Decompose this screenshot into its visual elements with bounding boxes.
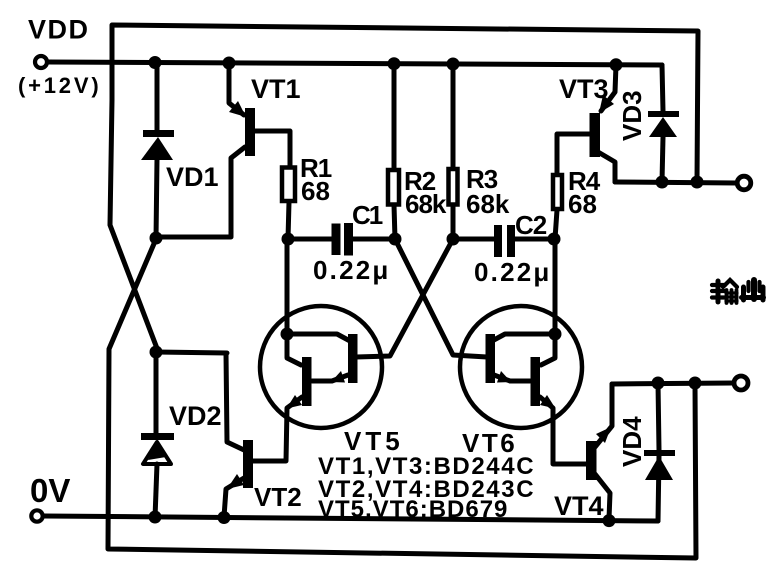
node A dot [282,233,295,246]
wire VD2 node horizontal [156,352,227,353]
capacitor C2 right plate [507,225,515,257]
svg-text:0.22μ: 0.22μ [474,257,552,287]
svg-text:C2: C2 [515,210,547,240]
transistor VT5 circle [260,306,382,428]
wire VD1 bottom lead [156,159,157,239]
svg-text:VT5: VT5 [344,426,404,456]
node dot VD2 top [150,346,163,359]
wire R3 bottom to node C [451,205,456,239]
node dot VT4 collector 0V [603,514,616,527]
capacitor C1 left plate [332,224,341,256]
svg-text:VT5,VT6:BD679: VT5,VT6:BD679 [318,496,508,523]
transistor VT6 emitter A arrow [497,371,511,383]
node dot output top VD3 [656,176,669,189]
node dot rail VT3 [610,58,623,71]
wire bottom frame (VD1 node to output bottom) [108,239,696,558]
diode VD1 triangle [141,137,173,160]
diode VD2 triangle outline with inner arrow [143,442,171,464]
terminal VDD [35,56,47,68]
wire C1 to node B [353,237,395,242]
diode VD1 cathode bar [143,130,174,137]
node dot rail VT1 [223,57,236,70]
node dot VD2 bottom 0V [149,511,162,524]
transistor VT1 bar [245,108,255,156]
wire R2 top lead [392,63,397,169]
node B dot [389,233,402,246]
svg-text:VT2: VT2 [254,482,302,512]
node dot output bottom frame [689,377,702,390]
svg-text:68k: 68k [466,189,510,219]
node dot VT2 emitter 0V [218,511,231,524]
transistor VT6 inner bar 2 [531,357,541,406]
wire R1 bottom to node A [288,202,289,239]
wire VD2 bottom lead [155,464,157,518]
resistor R2 [388,170,399,205]
diode VD3 triangle [649,117,677,137]
transistor VT6 inner bar 1 [486,334,496,383]
wire VDD rail [48,62,662,65]
svg-text:VT3: VT3 [559,74,609,104]
transistor VT3 emitter arrow [599,95,614,113]
wire VD2 top lead [154,352,159,434]
transistor VT4 emitter arrow [596,427,611,443]
svg-text:VD1: VD1 [166,162,219,192]
transistor VT2 emitter arrow [227,474,244,489]
wire node D to VT6 collector [553,239,558,334]
resistor R4 [553,175,562,209]
wire VD3 bottom lead [662,137,663,182]
node dot VD1 bottom [150,232,163,245]
wire VD1 top lead [155,62,160,131]
transistor VT5 inner bar 2 [302,357,312,406]
svg-text:VDD: VDD [28,15,90,45]
svg-text:VT1: VT1 [251,74,301,104]
svg-text:0.22μ: 0.22μ [313,255,391,285]
wire C2 to node D [514,237,554,242]
svg-text:68: 68 [568,189,597,219]
wire node A to C1 [288,237,333,242]
wire VT5 emitter B out [253,397,302,461]
wire output bottom line [612,383,733,384]
wire VT3 emitter lead [601,65,616,111]
diode VD4 triangle [645,456,673,480]
wire VT4 emitter up to output bottom [595,384,612,447]
wire VT3 base to R4 [557,134,590,174]
wire VT6 collector internal lower [541,334,555,365]
transistor VT5 inner bar 1 [348,334,358,383]
transistor VT5 emitter B arrow [287,395,303,409]
svg-text:68: 68 [301,176,330,206]
resistor R1 [282,168,295,202]
terminal 0V [31,510,42,521]
svg-text:C1: C1 [352,200,383,230]
wire 0V rail [44,516,658,521]
wire VT1 emitter lead [229,62,244,115]
wire VT5 collector internal lower [287,334,301,365]
wire VDD rail to VD3 [662,65,663,111]
svg-text:(+12V): (+12V) [18,73,101,98]
wire VD4 top lead [658,383,659,450]
node dot output top frame [691,176,704,189]
node dot VT5 collector [281,328,294,341]
svg-text:VT4: VT4 [554,491,604,521]
transistor VT6 emitter B arrow [540,395,556,409]
node dot rail R2 [388,57,401,70]
svg-text:VD2: VD2 [169,401,222,431]
node D dot [548,233,561,246]
wire R4 bottom to node D [555,210,557,239]
node C dot [447,233,460,246]
wire VT3 collector to output top [598,152,615,182]
wire VT6 collector internal upper [492,334,555,341]
diode VD3 cathode bar [648,111,679,117]
capacitor C1 right plate [344,223,353,256]
wire R2 bottom to node B [394,205,395,239]
terminal output bottom [734,376,748,390]
svg-text:0V: 0V [30,472,70,509]
node dot rail R3 [447,58,460,71]
wire VT6 emitter B out to VT4 base [540,397,586,464]
svg-text:68k: 68k [405,189,447,219]
wire node B to VT6 base (diagonal) [395,239,487,357]
wire top frame (VT2 collector node to output top) [110,25,698,351]
wire node C to C2 [453,237,496,242]
resistor R3 [449,169,458,205]
wire VT2 collector up [226,353,244,450]
node dot rail VD1 [149,56,162,69]
wire VD4 bottom lead [658,456,659,521]
terminal output top [737,176,751,190]
svg-text:VD3: VD3 [617,90,647,141]
transistor VT2 bar [243,440,253,488]
wire node A to VT5 collector [285,239,290,334]
transistor VT4 bar [586,441,597,480]
node dot output bottom VD4 [652,377,665,390]
transistor VT5 emitter A arrow [331,371,345,383]
wire VT5 emitter A to base B [312,375,348,381]
wire node C to VT5 base (diagonal) [356,239,453,357]
wire VT5 collector internal upper [287,334,350,341]
capacitor C2 left plate [494,225,502,257]
node dot VT6 collector [549,328,562,341]
transistor VT6 circle [460,306,582,428]
wire VT6 emitter A to base B [494,375,530,381]
diode VD2 cathode bar [141,433,174,440]
transistor VT1 emitter arrow [229,101,246,117]
transistor VT3 bar [590,113,601,157]
wire VT1 base to R1 [254,131,290,166]
wire R3 top lead [451,63,456,168]
wire VD1 node to VT1 collector [156,147,245,237]
wire VT2 emitter to 0V [224,478,244,517]
diode VD4 cathode bar [644,450,675,456]
wire VT4 collector down [595,474,610,519]
label output (Chinese shu-chu) [712,280,764,303]
wire output top line [615,182,737,183]
svg-text:VD4: VD4 [617,416,647,467]
